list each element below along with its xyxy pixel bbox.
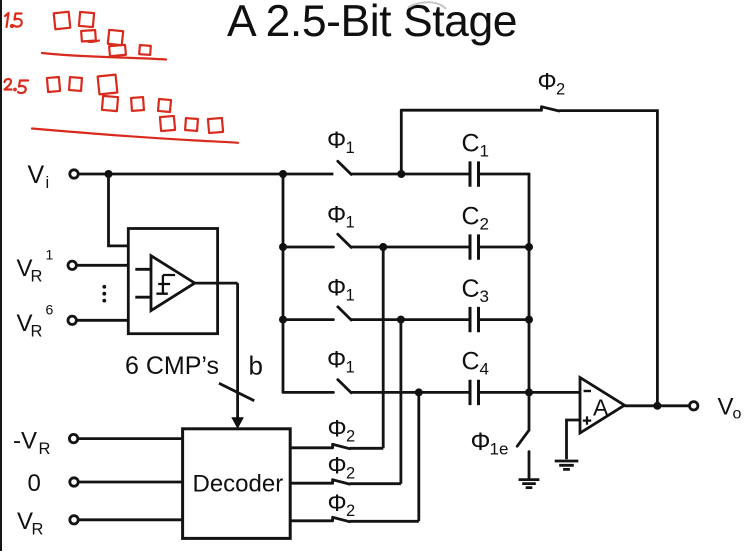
ellipsis between VR inputs xyxy=(102,285,106,303)
annotation "1.5" handwritten xyxy=(5,13,22,27)
terminal Vi xyxy=(28,161,79,192)
label 6 CMP's xyxy=(125,352,219,380)
title xyxy=(227,0,517,46)
wire summing to op-amp xyxy=(529,391,580,394)
node row1 feedback tap xyxy=(397,170,405,178)
svg-text:Φ: Φ xyxy=(327,347,346,374)
node left bus row3 xyxy=(279,316,287,324)
label phi2 feedback xyxy=(538,69,566,99)
terminal VR6 xyxy=(17,302,77,341)
svg-text:2: 2 xyxy=(346,428,355,446)
svg-text:V: V xyxy=(28,161,45,189)
node summing junction xyxy=(525,388,533,396)
svg-text:1: 1 xyxy=(46,247,54,263)
svg-text:R: R xyxy=(31,268,43,286)
svg-text:Φ: Φ xyxy=(328,490,347,517)
comparator hysteresis symbol xyxy=(156,275,175,294)
terminal Vo xyxy=(690,394,742,423)
annotation underline 2 xyxy=(32,129,238,143)
node Vi-left bus xyxy=(279,170,287,178)
svg-text:1: 1 xyxy=(346,214,355,232)
svg-text:C: C xyxy=(462,203,480,231)
label phi1e xyxy=(471,428,509,459)
svg-text:1: 1 xyxy=(480,142,489,161)
switch phi1e xyxy=(517,392,529,478)
op-amp plus sign xyxy=(583,416,591,424)
terminal VR bottom xyxy=(17,508,78,539)
wire row2 to C2 xyxy=(351,246,470,249)
op-amp minus sign xyxy=(584,390,591,392)
wire out2 riser xyxy=(350,320,401,484)
annotation underline 1 xyxy=(42,53,166,60)
wire 0 to decoder xyxy=(78,481,182,484)
wire Vi to comparator input xyxy=(109,174,129,246)
decoder box xyxy=(183,429,291,539)
label b xyxy=(249,350,263,380)
svg-text:Φ: Φ xyxy=(327,127,346,154)
comparator U1 box xyxy=(128,229,217,334)
svg-text:A: A xyxy=(593,395,609,421)
node row3 decoder tap xyxy=(397,316,405,324)
label phi1 row4 xyxy=(327,347,355,377)
wire feedback top and right drop xyxy=(559,111,657,406)
svg-text:V: V xyxy=(718,394,734,421)
capacitor C2 xyxy=(462,203,489,260)
switch phi2 out3 xyxy=(290,517,349,521)
label phi1 row1 xyxy=(327,127,355,157)
wire left bus xyxy=(282,174,285,392)
wire right bus xyxy=(528,173,531,393)
node right bus row2 xyxy=(525,243,533,251)
svg-text:C: C xyxy=(462,130,480,158)
wire op-amp plus input to ground xyxy=(567,420,581,459)
annotation squares row 2 xyxy=(47,75,223,133)
wire VR to decoder xyxy=(78,518,182,521)
comparator triangle xyxy=(151,256,195,311)
annotation "2.5" handwritten xyxy=(5,79,29,93)
wire C2 to right bus xyxy=(479,246,530,249)
switch phi2 feedback xyxy=(401,107,559,111)
svg-text:C: C xyxy=(462,275,480,303)
wire op-amp output xyxy=(625,404,690,407)
svg-text:1: 1 xyxy=(346,139,355,157)
svg-text:0: 0 xyxy=(28,470,41,497)
svg-text:b: b xyxy=(249,350,263,380)
node left bus row2 xyxy=(279,243,287,251)
label phi2 out3 xyxy=(328,490,356,520)
label phi2 out1 xyxy=(328,416,356,446)
switch S3 phi1 row3 xyxy=(283,307,351,320)
svg-text:1: 1 xyxy=(346,359,355,377)
annotation squares row 1 xyxy=(54,12,151,56)
svg-text:C: C xyxy=(462,348,480,376)
wire comparator output to decoder xyxy=(195,283,238,419)
terminal -VR xyxy=(13,428,78,459)
switch S2 phi1 row2 xyxy=(283,234,351,247)
arrowhead into decoder xyxy=(231,417,244,429)
svg-text:4: 4 xyxy=(480,360,489,379)
svg-text:Φ: Φ xyxy=(328,416,347,443)
switch phi2 out1 xyxy=(290,444,349,448)
wire C4 to summing node xyxy=(479,391,530,394)
svg-text:A 2.5-Bit Stage: A 2.5-Bit Stage xyxy=(227,0,517,46)
wire row1 to C1 xyxy=(351,173,470,176)
switch S1 phi1 row1 xyxy=(338,161,351,174)
wire C3 to right bus xyxy=(479,318,530,321)
wire feedback riser xyxy=(400,110,403,174)
capacitor C3 xyxy=(462,275,489,332)
node row2 decoder tap xyxy=(379,243,387,251)
wire Vi row xyxy=(78,173,333,176)
wire -VR to decoder xyxy=(78,437,182,440)
label phi1 row3 xyxy=(327,275,355,305)
faint cursor swirl xyxy=(408,2,446,9)
label phi2 out2 xyxy=(328,453,356,483)
svg-text:Φ: Φ xyxy=(327,202,346,229)
svg-text:Φ: Φ xyxy=(327,275,346,302)
svg-text:3: 3 xyxy=(480,287,489,306)
svg-text:1e: 1e xyxy=(490,440,509,459)
terminal VR1 xyxy=(17,247,77,286)
ground under phi1e xyxy=(519,480,540,488)
label phi1 row2 xyxy=(327,202,355,232)
switch S4 phi1 row4 xyxy=(283,380,351,393)
capacitor C4 xyxy=(462,348,489,406)
node row4 decoder tap xyxy=(415,388,423,396)
wire C1 to right bus xyxy=(479,173,530,176)
svg-text:1: 1 xyxy=(346,287,355,305)
svg-text:i: i xyxy=(46,174,50,192)
wire out3 riser xyxy=(350,392,419,521)
wire VR6 to comparator xyxy=(76,319,128,322)
node right bus row3 xyxy=(525,316,533,324)
svg-text:2: 2 xyxy=(346,465,355,483)
capacitor C1 xyxy=(462,130,489,187)
svg-text:2: 2 xyxy=(556,81,565,99)
svg-text:Φ: Φ xyxy=(328,453,347,480)
svg-text:Decoder: Decoder xyxy=(193,471,284,498)
switch phi2 out2 xyxy=(290,480,349,484)
comparator input stubs xyxy=(135,269,151,297)
left screen border xyxy=(0,0,2,551)
svg-text:R: R xyxy=(32,521,44,539)
wire row3 to C3 xyxy=(351,318,470,321)
bus slash b xyxy=(219,383,254,400)
svg-text:2: 2 xyxy=(480,215,489,234)
node Vi-comparator tap xyxy=(105,170,113,178)
svg-text:6 CMP’s: 6 CMP’s xyxy=(125,352,219,380)
wire row4 to C4 xyxy=(351,391,470,394)
svg-text:-V: -V xyxy=(13,428,37,455)
terminal 0 xyxy=(28,470,79,497)
wire VR1 to comparator xyxy=(76,264,128,267)
svg-text:Φ: Φ xyxy=(538,69,557,96)
ground at op-amp plus input xyxy=(555,461,579,469)
op-amp A xyxy=(580,378,625,434)
svg-text:o: o xyxy=(733,406,742,423)
node output feedback tap xyxy=(653,402,661,410)
svg-text:R: R xyxy=(39,440,51,458)
svg-text:6: 6 xyxy=(46,302,54,318)
svg-text:2: 2 xyxy=(346,502,355,520)
svg-text:R: R xyxy=(31,323,43,341)
wire out1 riser xyxy=(350,247,384,448)
svg-text:Φ: Φ xyxy=(471,428,491,456)
